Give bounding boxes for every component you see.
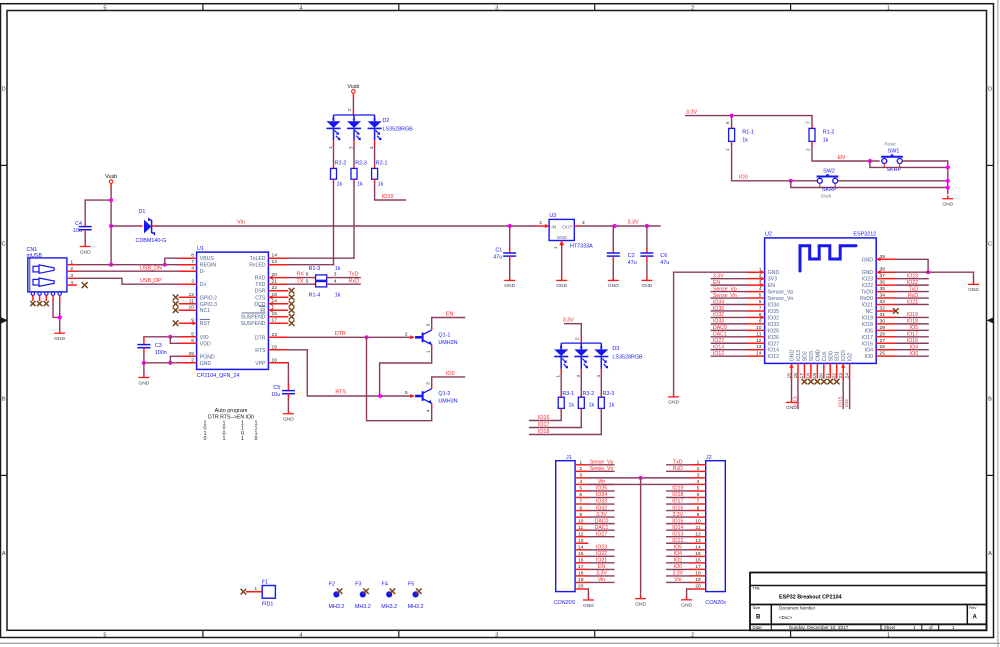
svg-text:CON20S: CON20S: [554, 600, 576, 606]
svg-text:GND: GND: [862, 257, 874, 263]
svg-text:IO0: IO0: [910, 351, 918, 357]
svg-text:6: 6: [697, 492, 700, 498]
svg-text:IO17: IO17: [907, 332, 918, 338]
svg-text:B: B: [988, 396, 992, 402]
svg-text:DTR RTS-->EN IO0: DTR RTS-->EN IO0: [208, 415, 254, 421]
svg-text:MH3.2: MH3.2: [328, 604, 344, 610]
svg-text:B: B: [2, 396, 6, 402]
svg-text:GND: GND: [54, 336, 65, 342]
svg-text:Auto program: Auto program: [215, 408, 248, 414]
svg-text:IO33: IO33: [596, 499, 607, 505]
svg-text:SW2: SW2: [823, 169, 835, 175]
svg-text:CP2104_QFN_24: CP2104_QFN_24: [197, 373, 240, 379]
svg-text:R3-3: R3-3: [603, 391, 615, 397]
svg-text:EN: EN: [446, 312, 454, 318]
svg-text:4: 4: [299, 5, 302, 11]
svg-text:2: 2: [539, 220, 542, 226]
svg-text:MH3.2: MH3.2: [408, 604, 424, 610]
svg-text:10: 10: [695, 518, 701, 524]
svg-text:Sense_Vn: Sense_Vn: [713, 293, 737, 299]
svg-text:Document Number: Document Number: [779, 605, 816, 610]
svg-text:IO26: IO26: [768, 335, 779, 341]
svg-text:USB_DP: USB_DP: [140, 278, 162, 284]
svg-text:Date:: Date:: [753, 625, 763, 630]
svg-text:SD2: SD2: [802, 351, 808, 361]
svg-text:11: 11: [695, 525, 700, 531]
svg-text:D-: D-: [200, 269, 206, 275]
svg-text:14: 14: [272, 253, 278, 259]
svg-text:3.3V: 3.3V: [673, 512, 684, 518]
svg-text:SD3: SD3: [809, 351, 815, 361]
svg-text:Vusb: Vusb: [105, 174, 117, 180]
svg-text:IO34: IO34: [713, 299, 724, 305]
svg-text:IO13: IO13: [672, 531, 683, 537]
svg-text:3.3V: 3.3V: [713, 273, 724, 279]
svg-text:17: 17: [695, 564, 701, 570]
svg-text:Sheet: Sheet: [884, 625, 896, 630]
svg-text:IO23: IO23: [862, 277, 873, 283]
svg-text:VIO: VIO: [200, 335, 209, 341]
svg-text:Vin: Vin: [237, 220, 245, 226]
svg-text:IO18: IO18: [907, 319, 918, 325]
svg-text:R3-2: R3-2: [583, 391, 595, 397]
svg-text:10: 10: [756, 325, 762, 331]
svg-text:C: C: [2, 242, 6, 248]
svg-text:RXD: RXD: [255, 276, 266, 282]
svg-text:SD0: SD0: [828, 351, 834, 361]
svg-text:8: 8: [191, 253, 194, 259]
svg-text:14: 14: [756, 351, 762, 357]
svg-text:2: 2: [697, 466, 700, 472]
svg-text:D: D: [988, 87, 992, 93]
svg-text:25: 25: [880, 351, 886, 357]
svg-text:IO32: IO32: [596, 505, 607, 511]
svg-text:Q1-1: Q1-1: [438, 332, 450, 338]
svg-text:GND: GND: [968, 287, 979, 293]
svg-text:IO16: IO16: [672, 505, 683, 511]
svg-text:4: 4: [759, 286, 762, 292]
svg-text:TxD: TxD: [673, 460, 683, 466]
svg-text:R1-1: R1-1: [742, 130, 754, 136]
svg-text:IO23: IO23: [596, 544, 607, 550]
svg-text:OUT: OUT: [562, 224, 572, 230]
svg-text:0: 0: [255, 436, 258, 442]
svg-text:IO32: IO32: [768, 315, 779, 321]
svg-text:Reset: Reset: [884, 142, 896, 147]
svg-text:18: 18: [578, 571, 584, 577]
svg-text:IO0: IO0: [865, 354, 873, 360]
svg-text:IO16: IO16: [538, 415, 550, 421]
svg-text:IO23: IO23: [907, 273, 918, 279]
svg-text:22: 22: [272, 285, 278, 291]
svg-text:6: 6: [191, 338, 194, 344]
svg-text:3.3V: 3.3V: [673, 571, 684, 577]
svg-text:GPIO.3: GPIO.3: [200, 302, 217, 308]
svg-text:IO14: IO14: [768, 348, 779, 354]
svg-text:34: 34: [880, 293, 886, 299]
svg-text:IO14: IO14: [713, 345, 724, 351]
svg-text:23: 23: [272, 332, 278, 338]
svg-text:Title: Title: [753, 586, 761, 591]
svg-text:VDD: VDD: [200, 341, 211, 347]
svg-text:5: 5: [306, 278, 309, 284]
svg-text:LS3528RGB: LS3528RGB: [383, 126, 414, 132]
svg-text:G: G: [352, 116, 355, 121]
svg-text:D+: D+: [200, 282, 207, 288]
svg-text:R2-3: R2-3: [355, 161, 367, 167]
svg-text:IO16: IO16: [907, 338, 918, 344]
svg-text:NC: NC: [866, 309, 874, 315]
svg-text:10u: 10u: [73, 228, 82, 234]
svg-text:GND: GND: [608, 283, 619, 289]
svg-text:13: 13: [756, 344, 762, 350]
svg-text:IO0: IO0: [739, 175, 748, 181]
svg-text:SUSPEND: SUSPEND: [241, 321, 266, 327]
svg-text:IO5: IO5: [674, 544, 682, 550]
svg-text:20: 20: [695, 584, 701, 590]
svg-text:IO17: IO17: [862, 335, 873, 341]
svg-text:ESP32 Breakout CP2104: ESP32 Breakout CP2104: [779, 595, 842, 601]
svg-text:16: 16: [695, 558, 701, 564]
svg-text:IO25: IO25: [768, 328, 779, 334]
svg-text:4: 4: [579, 479, 582, 485]
svg-text:GND: GND: [668, 400, 679, 406]
svg-text:37: 37: [880, 273, 886, 279]
svg-text:16: 16: [272, 357, 278, 363]
svg-text:GND: GND: [556, 283, 567, 289]
svg-text:20: 20: [578, 584, 584, 590]
svg-text:IO18: IO18: [538, 429, 550, 435]
svg-text:28: 28: [880, 331, 886, 337]
svg-text:15: 15: [272, 311, 278, 317]
svg-text:TxD: TxD: [909, 286, 919, 292]
svg-text:IO18: IO18: [862, 322, 873, 328]
svg-text:GND: GND: [504, 283, 515, 289]
svg-text:IO16: IO16: [862, 341, 873, 347]
svg-text:3.3V: 3.3V: [563, 318, 574, 324]
svg-text:SD1: SD1: [835, 351, 841, 361]
svg-text:17: 17: [578, 564, 584, 570]
svg-text:Sense_Vp: Sense_Vp: [713, 286, 737, 292]
svg-text:EN: EN: [838, 155, 846, 161]
svg-text:IO12: IO12: [713, 351, 724, 357]
svg-text:19: 19: [272, 344, 278, 350]
svg-text:25: 25: [189, 351, 195, 357]
svg-text:F5: F5: [408, 582, 414, 588]
svg-text:1: 1: [887, 632, 890, 638]
svg-text:CMD: CMD: [815, 349, 821, 361]
svg-text:3.3V: 3.3V: [596, 571, 607, 577]
svg-text:TxD0: TxD0: [861, 290, 873, 296]
svg-text:5: 5: [405, 390, 408, 396]
svg-text:26: 26: [880, 344, 886, 350]
svg-text:TXD: TXD: [255, 282, 266, 288]
svg-text:IO13: IO13: [792, 396, 798, 407]
svg-text:C2: C2: [628, 253, 635, 259]
svg-text:PGND: PGND: [200, 354, 215, 360]
svg-text:12: 12: [189, 292, 195, 298]
svg-text:16: 16: [578, 558, 584, 564]
svg-text:F3: F3: [355, 582, 361, 588]
svg-text:DAC0: DAC0: [595, 518, 609, 524]
svg-text:B: B: [756, 615, 761, 621]
svg-text:1: 1: [887, 5, 890, 11]
svg-text:10: 10: [578, 518, 584, 524]
svg-text:SW1: SW1: [888, 149, 900, 155]
svg-text:5: 5: [103, 632, 106, 638]
svg-text:MH3.2: MH3.2: [355, 604, 371, 610]
svg-text:1k: 1k: [378, 181, 384, 187]
svg-text:1k: 1k: [337, 181, 343, 187]
svg-text:RxLED: RxLED: [249, 263, 266, 269]
svg-text:IO0: IO0: [446, 371, 455, 377]
svg-text:14: 14: [695, 544, 701, 550]
svg-text:IO5: IO5: [910, 325, 918, 331]
svg-text:EN: EN: [713, 280, 720, 286]
svg-text:3: 3: [582, 220, 585, 226]
svg-text:32: 32: [880, 305, 886, 311]
svg-text:3: 3: [697, 473, 700, 479]
svg-text:Vin: Vin: [674, 577, 681, 583]
svg-text:14: 14: [578, 544, 584, 550]
svg-text:31: 31: [880, 312, 886, 318]
svg-text:7: 7: [759, 305, 762, 311]
svg-text:DAC1: DAC1: [713, 332, 727, 338]
svg-text:1k: 1k: [742, 138, 748, 144]
svg-text:12: 12: [578, 531, 584, 537]
svg-text:2: 2: [405, 331, 408, 337]
svg-text:GND: GND: [635, 601, 646, 607]
svg-text:10: 10: [189, 305, 195, 311]
svg-text:36: 36: [880, 280, 886, 286]
svg-text:9: 9: [697, 512, 700, 518]
svg-text:15: 15: [578, 551, 584, 557]
svg-text:IO18: IO18: [672, 492, 683, 498]
svg-text:5: 5: [579, 486, 582, 492]
svg-text:33: 33: [880, 299, 886, 305]
svg-text:R1-2: R1-2: [823, 130, 835, 136]
svg-text:3: 3: [334, 272, 337, 278]
svg-text:IO4: IO4: [910, 345, 918, 351]
svg-text:1k: 1k: [609, 403, 615, 409]
svg-text:UMH3N: UMH3N: [438, 399, 457, 405]
svg-text:FID1: FID1: [262, 602, 274, 608]
svg-text:IO22: IO22: [596, 551, 607, 557]
svg-text:UMH3N: UMH3N: [438, 340, 457, 346]
svg-text:USB_DN: USB_DN: [140, 265, 162, 271]
svg-text:IO33: IO33: [713, 319, 724, 325]
svg-text:GND: GND: [138, 380, 149, 386]
svg-text:R: R: [332, 116, 335, 121]
svg-text:D: D: [2, 87, 6, 93]
svg-text:U3: U3: [549, 213, 556, 219]
svg-text:IO14: IO14: [672, 525, 683, 531]
svg-text:Sensor_Vn: Sensor_Vn: [768, 296, 794, 302]
svg-text:3.3V: 3.3V: [627, 219, 638, 225]
svg-text:IO2: IO2: [674, 558, 682, 564]
svg-text:DTR: DTR: [255, 335, 266, 341]
svg-text:CLK: CLK: [822, 351, 828, 362]
svg-text:CTS: CTS: [255, 295, 266, 301]
svg-text:5: 5: [759, 293, 762, 299]
svg-text:HT7333A: HT7333A: [570, 243, 593, 249]
svg-text:IO2: IO2: [844, 399, 850, 407]
svg-text:DAC0: DAC0: [713, 325, 727, 331]
svg-text:J2: J2: [706, 455, 712, 461]
svg-text:EN: EN: [768, 283, 775, 289]
svg-text:GND: GND: [200, 361, 212, 367]
svg-text:15: 15: [695, 551, 701, 557]
svg-text:Flash: Flash: [821, 194, 832, 199]
svg-text:A: A: [988, 551, 992, 557]
svg-text:IO21: IO21: [596, 558, 607, 564]
svg-text:A: A: [2, 551, 6, 557]
svg-text:1k: 1k: [823, 138, 829, 144]
svg-text:4: 4: [191, 266, 194, 272]
svg-text:6: 6: [306, 272, 309, 278]
svg-text:29: 29: [880, 325, 886, 331]
svg-text:IO35: IO35: [596, 486, 607, 492]
svg-text:U1: U1: [197, 246, 204, 252]
svg-text:IO17: IO17: [538, 422, 550, 428]
svg-text:GND: GND: [790, 349, 796, 361]
svg-text:2: 2: [691, 632, 694, 638]
svg-text:J1: J1: [566, 455, 572, 461]
svg-text:1k: 1k: [357, 181, 363, 187]
svg-text:1: 1: [241, 436, 244, 442]
svg-text:F1: F1: [262, 580, 268, 586]
svg-text:19: 19: [578, 577, 584, 583]
svg-text:Sense_Vp: Sense_Vp: [590, 460, 614, 466]
svg-text:3: 3: [495, 5, 498, 11]
svg-text:IO4: IO4: [865, 348, 873, 354]
svg-text:IO34: IO34: [768, 303, 779, 309]
svg-text:6: 6: [759, 299, 762, 305]
svg-text:DTR: DTR: [335, 331, 346, 337]
svg-text:GND: GND: [80, 249, 91, 255]
svg-text:7: 7: [191, 259, 194, 265]
svg-text:U2: U2: [765, 232, 772, 238]
svg-text:VPP: VPP: [255, 361, 266, 367]
svg-text:13: 13: [578, 538, 584, 544]
svg-text:10u: 10u: [271, 392, 280, 398]
svg-text:RxD: RxD: [349, 278, 360, 284]
svg-text:IO12: IO12: [768, 354, 779, 360]
svg-text:GND: GND: [862, 270, 874, 276]
svg-text:4: 4: [299, 632, 302, 638]
svg-text:Sense_Vn: Sense_Vn: [590, 466, 614, 472]
svg-text:DAC1: DAC1: [595, 525, 609, 531]
svg-text:GND: GND: [641, 283, 652, 289]
svg-text:R1-4: R1-4: [309, 293, 321, 299]
svg-text:11: 11: [189, 298, 194, 304]
svg-text:21: 21: [272, 279, 278, 285]
svg-text:GND: GND: [768, 270, 780, 276]
svg-text:7: 7: [697, 499, 700, 505]
svg-text:C1: C1: [495, 248, 502, 254]
svg-text:9: 9: [759, 318, 762, 324]
svg-text:IO19: IO19: [907, 312, 918, 318]
svg-text:Vin: Vin: [598, 577, 605, 583]
svg-text:IO0: IO0: [674, 564, 682, 570]
svg-text:RxD: RxD: [908, 293, 918, 299]
svg-text:CDBM140-G: CDBM140-G: [136, 238, 167, 244]
svg-text:3: 3: [70, 273, 73, 279]
svg-text:D2: D2: [383, 118, 390, 124]
svg-text:C4: C4: [75, 221, 82, 227]
svg-text:C3: C3: [155, 343, 162, 349]
svg-text:1: 1: [70, 259, 73, 265]
svg-text:12: 12: [695, 531, 701, 537]
svg-text:IO17: IO17: [672, 499, 683, 505]
svg-text:1: 1: [223, 436, 226, 442]
svg-text:F2: F2: [329, 582, 335, 588]
svg-text:1: 1: [913, 625, 916, 630]
svg-text:IO4: IO4: [674, 551, 682, 557]
svg-text:30: 30: [880, 318, 886, 324]
svg-text:TxD: TxD: [349, 272, 359, 278]
svg-text:1k: 1k: [568, 403, 574, 409]
svg-text:3.3V: 3.3V: [686, 110, 697, 116]
svg-text:2: 2: [691, 5, 694, 11]
svg-text:IO35: IO35: [713, 306, 724, 312]
svg-text:4: 4: [697, 479, 700, 485]
svg-text:IO22: IO22: [862, 283, 873, 289]
svg-text:Sensor_Vp: Sensor_Vp: [768, 290, 794, 296]
svg-text:IO27: IO27: [713, 338, 724, 344]
svg-text:CON20s: CON20s: [705, 600, 726, 606]
svg-text:GND: GND: [942, 202, 953, 208]
svg-text:F4: F4: [382, 582, 388, 588]
svg-text:2: 2: [191, 357, 194, 363]
svg-text:RxD: RxD: [673, 466, 683, 472]
svg-text:A: A: [973, 615, 978, 621]
svg-text:100n: 100n: [155, 350, 167, 356]
svg-text:11: 11: [756, 331, 761, 337]
svg-text:Sunday, December 10, 2017: Sunday, December 10, 2017: [789, 625, 849, 630]
svg-text:IO33: IO33: [768, 322, 779, 328]
svg-text:C: C: [988, 242, 992, 248]
svg-text:1: 1: [697, 460, 700, 466]
svg-text:CN1: CN1: [27, 247, 38, 253]
svg-text:TxLED: TxLED: [250, 256, 266, 262]
svg-text:VBUS: VBUS: [200, 256, 215, 262]
svg-text:GND: GND: [283, 417, 294, 423]
svg-text:D1: D1: [139, 209, 146, 215]
svg-text:R3-1: R3-1: [562, 391, 574, 397]
svg-text:2: 2: [70, 266, 73, 272]
svg-text:C5: C5: [273, 385, 280, 391]
svg-text:19: 19: [695, 577, 701, 583]
svg-text:RTS: RTS: [255, 348, 266, 354]
svg-text:12: 12: [756, 338, 762, 344]
svg-text:RTS: RTS: [335, 390, 346, 396]
svg-text:SUSPEND: SUSPEND: [241, 315, 266, 321]
svg-text:REGIN: REGIN: [200, 263, 217, 269]
svg-text:IO19: IO19: [862, 315, 873, 321]
svg-text:IO19: IO19: [382, 194, 394, 200]
svg-text:1k: 1k: [335, 293, 341, 299]
svg-text:17: 17: [272, 318, 278, 324]
svg-text:1k: 1k: [589, 403, 595, 409]
svg-text:Rev: Rev: [969, 605, 976, 610]
svg-text:3: 3: [495, 632, 498, 638]
svg-text:11: 11: [578, 525, 583, 531]
svg-text:8: 8: [697, 505, 700, 511]
svg-text:3: 3: [579, 473, 582, 479]
svg-text:GND: GND: [583, 603, 594, 609]
svg-text:7: 7: [579, 499, 582, 505]
